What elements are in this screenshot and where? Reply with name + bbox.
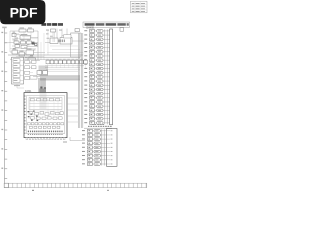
svg-text:IC801: IC801 [25, 90, 32, 93]
svg-text:CN8001: CN8001 [86, 28, 95, 30]
svg-text:PDF: PDF [10, 4, 38, 20]
